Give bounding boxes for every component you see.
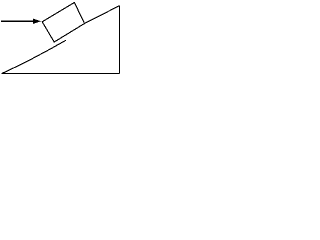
- incline base: [2, 72, 120, 74]
- arrowhead: [33, 19, 41, 24]
- block on incline: [42, 3, 84, 43]
- incline right edge: [118, 6, 120, 74]
- incline slope right segment (from block corner C to apex): [85, 6, 120, 24]
- arrow shaft: [1, 20, 35, 22]
- incline slope left segment (passes under floating block, ends beneath it): [2, 40, 66, 73]
- background: [0, 0, 123, 76]
